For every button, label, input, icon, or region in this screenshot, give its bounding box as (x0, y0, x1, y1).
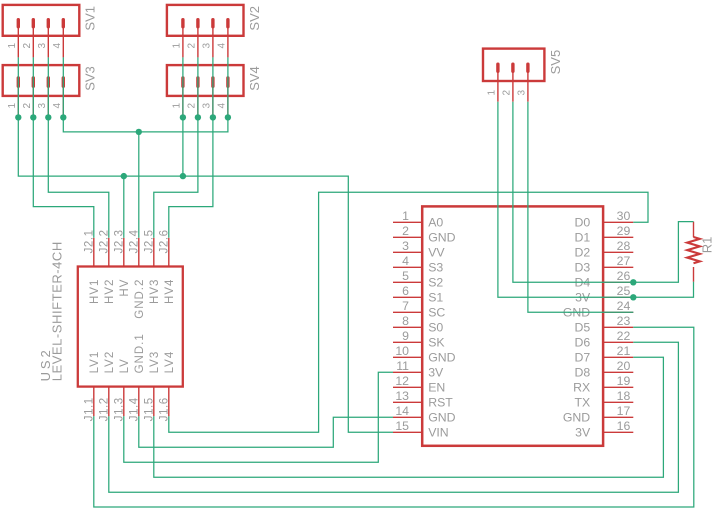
wire net GND2: IC pin14 to J1.4 (139, 416, 393, 447)
svg-text:30: 30 (617, 209, 631, 223)
wire net HV4: SV4 pin3 to J2.6 (169, 57, 213, 237)
svg-text:EN: EN (428, 381, 445, 395)
wire net GND: SV3 pin4 / SV4 pin4 / J2.4 segment 2 (138, 132, 140, 238)
IC right pin numbers (617, 209, 631, 433)
svg-text:GND: GND (428, 411, 455, 425)
junction at (212.9,117.4) (210, 114, 216, 120)
svg-text:GND: GND (428, 351, 455, 365)
svg-text:27: 27 (617, 254, 631, 268)
svg-text:29: 29 (617, 224, 631, 238)
svg-text:3: 3 (202, 103, 213, 109)
svg-text:20: 20 (617, 359, 631, 373)
svg-text:10: 10 (395, 344, 409, 358)
svg-text:SV4: SV4 (247, 66, 262, 91)
svg-text:16: 16 (617, 419, 631, 433)
svg-text:12: 12 (395, 374, 409, 388)
svg-text:4: 4 (52, 43, 63, 49)
wire net 3V: SV5 pin1 to IC pin25 and R1 bottom (498, 102, 694, 298)
svg-text:3: 3 (517, 90, 528, 96)
junction at (33.3,117.4) (30, 114, 36, 120)
svg-text:SK: SK (428, 336, 445, 350)
wire net D6 to J1.2 (109, 342, 679, 492)
svg-text:SV2: SV2 (247, 6, 262, 31)
svg-text:LV: LV (119, 358, 131, 373)
svg-text:1: 1 (7, 103, 18, 109)
svg-text:HV2: HV2 (104, 279, 116, 304)
svg-text:21: 21 (617, 344, 631, 358)
svg-text:HV1: HV1 (89, 279, 101, 304)
svg-text:LV3: LV3 (149, 351, 161, 374)
svg-text:D6: D6 (574, 336, 590, 350)
svg-text:25: 25 (617, 284, 631, 298)
svg-text:D0: D0 (574, 216, 590, 230)
connector SV5 (483, 49, 563, 102)
wire net GND3: SV5 pin3 to IC pin24 (528, 102, 633, 313)
svg-text:1: 1 (487, 90, 498, 96)
svg-text:GND.2: GND.2 (134, 279, 146, 319)
junction at (227.9,117.4) (225, 114, 231, 120)
junction at (633.3,282.3) (630, 279, 636, 285)
junction at (182.9,117.4) (180, 114, 186, 120)
svg-text:26: 26 (617, 269, 631, 283)
svg-text:4: 4 (217, 43, 228, 49)
svg-text:3V: 3V (428, 366, 444, 380)
svg-text:18: 18 (617, 389, 631, 403)
wire net D7 to J1.5 (154, 357, 664, 477)
US2 inner top pin labels (89, 279, 176, 319)
svg-text:LV2: LV2 (104, 351, 116, 374)
connector SV2 (167, 5, 262, 58)
svg-text:GND.1: GND.1 (134, 333, 146, 373)
svg-text:TX: TX (574, 396, 590, 410)
wire net 3V3: IC pin11 to J1.3 (124, 372, 393, 462)
svg-text:8: 8 (402, 314, 409, 328)
svg-text:14: 14 (395, 404, 409, 418)
wire net D5 to J1.1 (94, 327, 694, 507)
junction at (48.3,117.4) (45, 114, 51, 120)
resistor R1 (687, 222, 714, 282)
wire net VIN: SV3 pin1 / SV4 pin1 / J2.3 to IC VIN segment 1 (18, 57, 393, 432)
svg-text:5: 5 (402, 269, 409, 283)
IC right pin names (563, 216, 591, 440)
svg-text:2: 2 (187, 43, 198, 49)
svg-text:D3: D3 (574, 261, 590, 275)
svg-text:3: 3 (37, 43, 48, 49)
svg-text:RST: RST (428, 396, 453, 410)
svg-text:3: 3 (202, 43, 213, 49)
svg-text:SC: SC (428, 306, 445, 320)
wire net VIN: SV3 pin1 / SV4 pin1 / J2.3 to IC VIN segment 3 (182, 57, 184, 176)
junction at (197.9,117.4) (195, 114, 201, 120)
junction at (138.8,131.9) (136, 129, 142, 135)
svg-text:4: 4 (52, 103, 63, 109)
IC right pins 30-16 (603, 222, 633, 432)
svg-text:VIN: VIN (428, 426, 449, 440)
connector SV3 (3, 65, 98, 117)
wire net D4: SV5 pin2 to IC pin26 and R1 top (513, 102, 694, 283)
svg-text:17: 17 (617, 404, 631, 418)
svg-text:R1: R1 (699, 237, 714, 254)
IC module box (422, 206, 603, 445)
svg-text:S2: S2 (428, 276, 443, 290)
svg-text:4: 4 (402, 254, 409, 268)
svg-text:1: 1 (7, 43, 18, 49)
svg-text:S3: S3 (428, 261, 443, 275)
svg-text:6: 6 (402, 284, 409, 298)
svg-text:LEVEL-SHIFTER-4CH: LEVEL-SHIFTER-4CH (50, 241, 65, 381)
svg-text:HV3: HV3 (149, 279, 161, 304)
connector SV4 (167, 65, 262, 117)
US2 inner bottom pin labels (89, 333, 176, 373)
svg-text:S1: S1 (428, 291, 443, 305)
svg-text:19: 19 (617, 374, 631, 388)
svg-text:1: 1 (172, 43, 183, 49)
svg-text:2: 2 (22, 103, 33, 109)
svg-text:13: 13 (395, 389, 409, 403)
wire net HV2: SV3 pin3 to J2.2 (48, 57, 109, 237)
wire net VIN: SV3 pin1 / SV4 pin1 / J2.3 to IC VIN segment 2 (123, 176, 125, 238)
US2 top pin names J2.1-J2.6 (83, 229, 170, 253)
junction at (18.3,117.4) (15, 114, 21, 120)
svg-text:D8: D8 (574, 366, 590, 380)
svg-text:2: 2 (402, 224, 409, 238)
connector SV1 (3, 5, 98, 58)
US2 value label LEVEL-SHIFTER-4CH (50, 241, 65, 381)
wire net HV3: SV4 pin2 to J2.5 (154, 57, 198, 237)
US2 reference label (38, 347, 53, 381)
svg-text:22: 22 (617, 329, 631, 343)
svg-text:7: 7 (402, 299, 409, 313)
svg-text:2: 2 (502, 90, 513, 96)
svg-text:A0: A0 (428, 216, 443, 230)
svg-text:1: 1 (402, 209, 409, 223)
svg-text:1: 1 (172, 103, 183, 109)
svg-text:D1: D1 (574, 231, 590, 245)
svg-text:SV5: SV5 (548, 50, 563, 75)
svg-text:HV4: HV4 (164, 279, 176, 304)
svg-text:3: 3 (402, 239, 409, 253)
junction at (633.3,297.3) (630, 294, 636, 300)
level shifter US2 box (78, 238, 183, 416)
svg-text:D2: D2 (574, 246, 590, 260)
svg-text:GND: GND (563, 411, 590, 425)
svg-text:SV3: SV3 (83, 66, 98, 91)
wire net GND: SV3 pin4 / SV4 pin4 / J2.4 segment 1 (63, 57, 228, 131)
svg-text:VV: VV (428, 246, 445, 260)
svg-text:SV1: SV1 (83, 6, 98, 31)
US2 bottom pin names J1.1-J1.6 (83, 397, 170, 421)
svg-text:S0: S0 (428, 321, 443, 335)
junction at (123.8,176.1) (121, 173, 127, 179)
svg-text:28: 28 (617, 239, 631, 253)
svg-text:2: 2 (187, 103, 198, 109)
svg-text:3: 3 (37, 103, 48, 109)
svg-text:3V: 3V (575, 426, 591, 440)
junction at (182.9,176.1) (180, 173, 186, 179)
svg-text:GND: GND (428, 231, 455, 245)
svg-text:LV1: LV1 (89, 351, 101, 374)
svg-text:23: 23 (617, 314, 631, 328)
svg-text:9: 9 (402, 329, 409, 343)
IC left pin numbers (395, 209, 409, 433)
svg-text:15: 15 (395, 419, 409, 433)
svg-text:D5: D5 (574, 321, 590, 335)
svg-text:2: 2 (22, 43, 33, 49)
junction at (63.3,117.4) (60, 114, 66, 120)
IC left pins 1-15 (393, 222, 422, 432)
IC left pin names (428, 216, 455, 440)
svg-text:LV4: LV4 (164, 351, 176, 374)
svg-text:HV: HV (119, 279, 131, 297)
wire net HV1: SV3 pin2 to J2.1 (33, 57, 94, 237)
wire net D0 to J1.6 (169, 192, 648, 432)
svg-text:11: 11 (396, 359, 409, 373)
svg-text:D7: D7 (574, 351, 590, 365)
svg-text:24: 24 (617, 299, 631, 313)
svg-text:RX: RX (573, 381, 590, 395)
svg-text:4: 4 (217, 103, 228, 109)
